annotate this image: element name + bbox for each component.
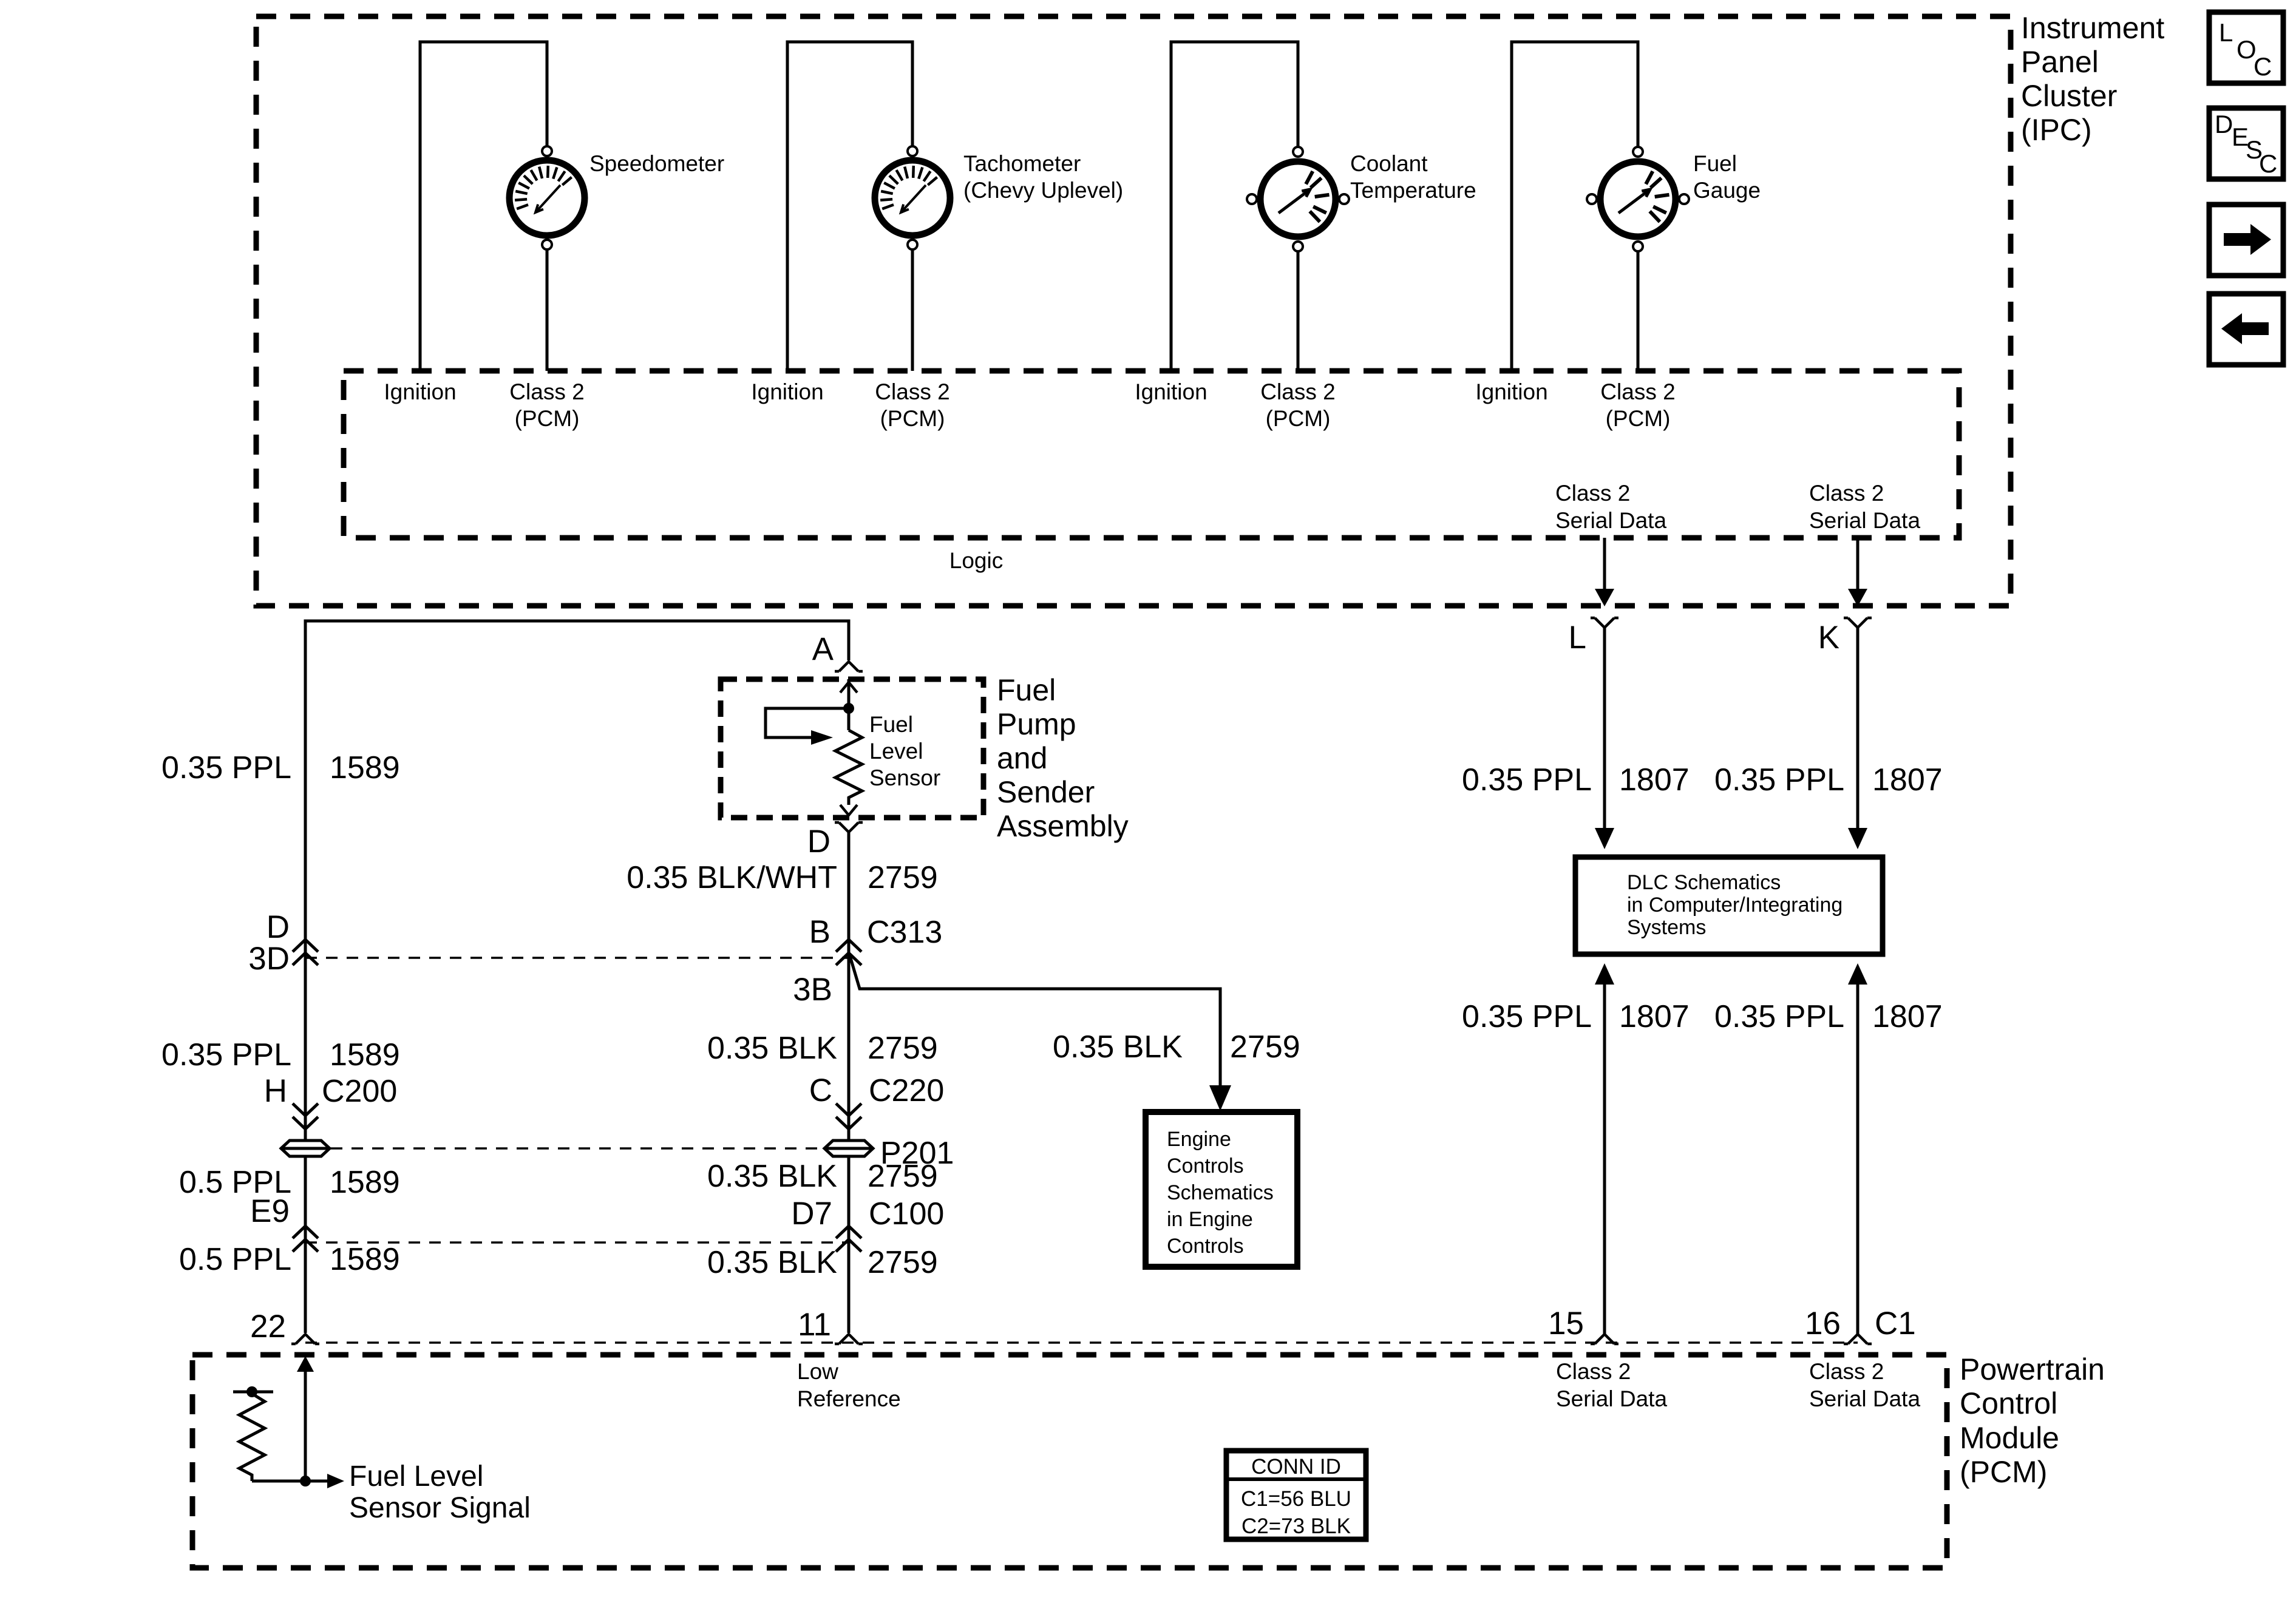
svg-text:1807: 1807 <box>1872 999 1943 1034</box>
label Class 2 Serial Data (pin 15) <box>1556 1359 1667 1411</box>
svg-text:(PCM): (PCM) <box>880 406 945 431</box>
svg-text:Gauge: Gauge <box>1693 178 1761 203</box>
label Class 2 Serial Data (IPC pin K) <box>1809 481 1920 533</box>
wire ignition feed for fuel gauge <box>1512 42 1638 371</box>
svg-text:0.35 PPL: 0.35 PPL <box>1462 762 1592 798</box>
svg-text:A: A <box>812 631 834 667</box>
gauge coolant temperature gauge <box>1247 147 1349 251</box>
svg-text:Class 2: Class 2 <box>875 379 949 404</box>
gauge speedometer <box>509 146 585 249</box>
svg-text:Assembly: Assembly <box>997 809 1129 843</box>
Logic dashed box <box>344 371 1959 538</box>
wire class 2 output below fuel gauge <box>1637 251 1640 371</box>
wire pin L to DLC box <box>1603 628 1606 830</box>
wire label 0.35 PPL 1807 (right lower) <box>1714 999 1943 1034</box>
svg-text:2759: 2759 <box>868 1245 938 1280</box>
svg-text:Fuel: Fuel <box>1693 151 1737 176</box>
svg-text:Module: Module <box>1960 1421 2059 1455</box>
arrow chevron up at fuel pump box entry <box>840 682 857 693</box>
wire class 2 serial data inside IPC (pin K) <box>1856 538 1860 589</box>
connector C100 chevrons right (D7) <box>836 1226 861 1252</box>
svg-text:Level: Level <box>869 739 923 764</box>
label Fuel Pump and Sender Assembly <box>997 673 1129 843</box>
wire into fuel level sensor <box>847 679 851 730</box>
DLC Schematics box <box>1575 857 1883 954</box>
svg-text:0.35 PPL: 0.35 PPL <box>1714 762 1844 798</box>
resistor fuel level sensor <box>835 730 862 805</box>
svg-text:in Engine: in Engine <box>1167 1208 1253 1231</box>
svg-text:Coolant: Coolant <box>1350 151 1428 176</box>
Fuel Pump and Sender Assembly dashed box <box>721 679 983 818</box>
svg-text:L: L <box>1569 620 1586 656</box>
svg-text:Class 2: Class 2 <box>509 379 584 404</box>
wire pin K to DLC box <box>1856 628 1860 830</box>
svg-text:Class 2: Class 2 <box>1600 379 1675 404</box>
svg-text:0.35 PPL: 0.35 PPL <box>161 1037 291 1073</box>
svg-text:B: B <box>809 914 830 950</box>
svg-text:Powertrain: Powertrain <box>1960 1352 2105 1386</box>
label Class 2 (PCM) (tachometer) <box>875 379 949 431</box>
wire label 0.5 PPL 1589 (lower) <box>179 1242 400 1277</box>
svg-text:Reference: Reference <box>797 1386 901 1411</box>
svg-text:3D: 3D <box>248 941 290 977</box>
Powertrain Control Module dashed box <box>192 1355 1947 1568</box>
svg-text:Serial Data: Serial Data <box>1555 508 1666 533</box>
svg-text:C: C <box>809 1073 832 1108</box>
wire class 2 output below tachometer <box>911 249 914 371</box>
svg-text:(Chevy Uplevel): (Chevy Uplevel) <box>963 178 1123 203</box>
svg-text:Speedometer: Speedometer <box>589 151 724 176</box>
svg-text:C313: C313 <box>867 915 942 950</box>
svg-text:D: D <box>2215 110 2233 138</box>
gauge fuel gauge <box>1587 147 1689 251</box>
Instrument Panel Cluster (IPC) dashed box <box>256 16 2011 606</box>
svg-text:Logic: Logic <box>949 548 1003 573</box>
label Class 2 Serial Data (IPC pin L) <box>1555 481 1666 533</box>
svg-text:16: 16 <box>1805 1306 1841 1341</box>
CONN ID table <box>1226 1451 1366 1539</box>
svg-text:0.35 PPL: 0.35 PPL <box>161 750 291 785</box>
label Fuel Level Sensor <box>869 712 940 790</box>
svg-text:(PCM): (PCM) <box>515 406 580 431</box>
pin K connector fork <box>1844 618 1872 628</box>
svg-text:(PCM): (PCM) <box>1266 406 1331 431</box>
svg-text:1807: 1807 <box>1872 762 1943 798</box>
wire class 2 output below speedometer <box>546 249 549 371</box>
svg-text:D: D <box>807 824 830 859</box>
arrowhead into Engine Controls box <box>1209 1085 1231 1111</box>
svg-text:Control: Control <box>1960 1386 2057 1420</box>
svg-text:Temperature: Temperature <box>1350 178 1476 203</box>
svg-text:C220: C220 <box>869 1073 944 1108</box>
svg-text:DLC Schematics: DLC Schematics <box>1627 871 1781 894</box>
svg-text:Ignition: Ignition <box>751 379 823 404</box>
svg-text:Sender: Sender <box>997 775 1095 809</box>
svg-text:D: D <box>267 909 290 945</box>
wire label 0.35 BLK 2759 (lower) <box>707 1245 938 1280</box>
svg-text:E9: E9 <box>250 1193 290 1229</box>
arrowhead up into DLC box (pin 15 wire) <box>1595 963 1614 985</box>
svg-text:(PCM): (PCM) <box>1606 406 1671 431</box>
arrowhead up inside PCM <box>297 1356 314 1372</box>
svg-text:Systems: Systems <box>1627 916 1706 939</box>
connector C220 chevrons <box>836 1103 861 1129</box>
svg-text:Pump: Pump <box>997 707 1076 741</box>
svg-text:(IPC): (IPC) <box>2021 113 2092 147</box>
wire ignition feed for coolant temperature gauge <box>1171 42 1298 371</box>
label Fuel Level Sensor Signal <box>349 1460 531 1524</box>
svg-text:Ignition: Ignition <box>384 379 456 404</box>
svg-text:0.35 BLK: 0.35 BLK <box>1053 1029 1183 1065</box>
svg-text:0.35 BLK: 0.35 BLK <box>707 1031 837 1066</box>
label tachometer <box>963 151 1123 203</box>
wire fuel sensor low reference down to PCM pin 11 <box>847 832 851 1333</box>
svg-text:2759: 2759 <box>1230 1029 1300 1065</box>
dashed connector line C100 level <box>305 1241 849 1244</box>
svg-text:C2=73 BLK: C2=73 BLK <box>1241 1514 1351 1538</box>
arrowhead up into DLC box (pin 16 wire) <box>1848 963 1867 985</box>
wire label 0.35 BLK 2759 (branch) <box>1053 1029 1300 1065</box>
dashed PCM connector line <box>305 1341 1858 1344</box>
svg-text:C1=56 BLU: C1=56 BLU <box>1241 1487 1351 1511</box>
splice pass-through right P201 <box>824 1141 873 1156</box>
wire class 2 output below coolant temperature gauge <box>1297 251 1300 371</box>
wire label 0.35 PPL 1589 (top) <box>161 750 400 785</box>
label coolant temperature gauge <box>1350 151 1476 203</box>
svg-text:11: 11 <box>798 1307 831 1343</box>
branch wire 3B to Engine Controls <box>850 956 1220 1086</box>
connector C100 chevrons left (E9) <box>293 1226 318 1252</box>
svg-text:0.35 PPL: 0.35 PPL <box>1462 999 1592 1034</box>
wire fuel level sensor signal in PCM <box>252 1474 344 1488</box>
svg-text:C100: C100 <box>869 1196 944 1232</box>
svg-text:0.35 BLK: 0.35 BLK <box>707 1159 837 1194</box>
svg-text:Controls: Controls <box>1167 1235 1244 1258</box>
wire DLC box to PCM pin 15 <box>1603 985 1606 1335</box>
dashed splice link P201 <box>331 1147 823 1150</box>
pin 11 fork <box>835 1334 863 1344</box>
wire label 0.35 BLK 2759 (middle) <box>707 1159 938 1194</box>
resistor in PCM <box>239 1392 265 1481</box>
IPC label <box>2021 11 2164 147</box>
svg-text:Serial Data: Serial Data <box>1809 508 1920 533</box>
svg-text:Low: Low <box>797 1359 838 1384</box>
arrowhead into DLC box (from K) <box>1848 828 1867 849</box>
svg-text:Instrument: Instrument <box>2021 11 2164 45</box>
label fuel gauge <box>1693 151 1761 203</box>
svg-text:Class 2: Class 2 <box>1260 379 1335 404</box>
LOC icon box <box>2209 12 2283 83</box>
svg-text:1589: 1589 <box>330 1242 400 1277</box>
wire DLC box to PCM pin 16 <box>1856 985 1860 1335</box>
svg-text:C200: C200 <box>322 1074 397 1109</box>
svg-text:Engine: Engine <box>1167 1128 1231 1151</box>
svg-text:Class 2: Class 2 <box>1809 481 1884 506</box>
junction node in fuel pump <box>843 703 854 714</box>
svg-text:H: H <box>264 1073 287 1109</box>
splice pass-through left (P201) <box>281 1141 330 1156</box>
svg-text:C: C <box>2254 52 2272 81</box>
dashed connector line C313 level <box>305 957 849 959</box>
svg-text:Tachometer: Tachometer <box>963 151 1081 176</box>
svg-text:Schematics: Schematics <box>1167 1181 1274 1204</box>
pin 16 fork <box>1844 1334 1872 1344</box>
svg-text:Class 2: Class 2 <box>1809 1359 1884 1384</box>
wire label 0.35 PPL 1807 (right upper) <box>1714 762 1943 798</box>
wire label 0.35 PPL 1807 (left lower) <box>1462 999 1690 1034</box>
svg-text:Panel: Panel <box>2021 45 2099 79</box>
svg-text:15: 15 <box>1548 1306 1584 1341</box>
Engine Controls Schematics box <box>1146 1112 1297 1267</box>
label Class 2 (PCM) (fuel gauge) <box>1600 379 1675 431</box>
arrowhead into IPC border (pin L) <box>1595 589 1614 606</box>
svg-text:0.35 BLK/WHT: 0.35 BLK/WHT <box>627 860 837 895</box>
wire label 0.35 BLK 2759 (upper) <box>707 1031 938 1066</box>
label Class 2 (PCM) (speedometer) <box>509 379 584 431</box>
left arrow icon box <box>2209 294 2283 365</box>
right arrow icon box <box>2209 205 2283 276</box>
PCM label <box>1960 1352 2105 1489</box>
wire ignition feed for tachometer <box>787 42 912 371</box>
svg-text:D7: D7 <box>791 1196 832 1232</box>
svg-text:1589: 1589 <box>330 750 400 785</box>
pin 15 fork <box>1591 1334 1618 1344</box>
resistor stub in PCM <box>233 1386 273 1397</box>
label Class 2 Serial Data (pin 16) <box>1809 1359 1920 1411</box>
pin L connector fork <box>1591 618 1618 628</box>
svg-text:(PCM): (PCM) <box>1960 1455 2047 1489</box>
svg-text:3B: 3B <box>793 972 832 1008</box>
svg-text:Fuel: Fuel <box>869 712 913 737</box>
wire label 0.35 PPL 1807 (left upper) <box>1462 762 1690 798</box>
svg-text:Cluster: Cluster <box>2021 79 2117 113</box>
svg-text:Controls: Controls <box>1167 1154 1244 1178</box>
wire label 0.35 BLK/WHT 2759 <box>627 860 937 895</box>
wire IPC fuel gauge signal: PCM pin22 up, across, to pin A <box>305 621 849 1333</box>
svg-text:2759: 2759 <box>868 1159 938 1194</box>
arrowhead into DLC box (from L) <box>1595 828 1614 849</box>
pin D fork <box>835 822 863 832</box>
gauge tachometer <box>875 146 950 249</box>
arrow chevron down at fuel pump box exit <box>840 805 857 815</box>
svg-text:2759: 2759 <box>868 1031 938 1066</box>
svg-text:1589: 1589 <box>330 1037 400 1073</box>
wire label 0.5 PPL 1589 (upper) <box>179 1165 400 1200</box>
svg-text:Fuel: Fuel <box>997 673 1056 707</box>
svg-text:0.35 BLK: 0.35 BLK <box>707 1245 837 1280</box>
connector C200 chevrons <box>293 1103 318 1129</box>
label speedometer <box>589 151 724 176</box>
wiper arm loop of fuel level sensor <box>766 708 849 745</box>
svg-text:K: K <box>1818 620 1839 656</box>
wire class 2 serial data inside IPC (pin L) <box>1603 538 1606 589</box>
svg-text:Ignition: Ignition <box>1475 379 1547 404</box>
svg-text:0.35 PPL: 0.35 PPL <box>1714 999 1844 1034</box>
svg-text:and: and <box>997 741 1047 775</box>
pin 22 fork <box>291 1334 319 1344</box>
label Class 2 (PCM) (coolant temperature gauge) <box>1260 379 1335 431</box>
wire label 0.35 PPL 1589 (second) <box>161 1037 400 1073</box>
svg-text:22: 22 <box>250 1309 286 1344</box>
svg-text:L: L <box>2219 18 2233 47</box>
svg-text:Class 2: Class 2 <box>1556 1359 1631 1384</box>
svg-text:Sensor: Sensor <box>869 765 940 790</box>
svg-text:CONN ID: CONN ID <box>1251 1455 1341 1479</box>
DESC icon box <box>2209 108 2283 179</box>
connector D 3D chevrons on left wire <box>293 940 318 965</box>
wire ignition feed for speedometer <box>420 42 547 371</box>
svg-text:Class 2: Class 2 <box>1555 481 1630 506</box>
svg-text:1807: 1807 <box>1619 999 1690 1034</box>
svg-text:Ignition: Ignition <box>1135 379 1207 404</box>
svg-text:C1: C1 <box>1875 1306 1916 1341</box>
svg-text:Serial Data: Serial Data <box>1556 1386 1667 1411</box>
connector C313 chevrons (pin B) <box>836 940 861 965</box>
svg-text:Sensor Signal: Sensor Signal <box>349 1492 531 1524</box>
wire pin 22 inside PCM <box>304 1371 307 1481</box>
pin A fork <box>835 662 863 671</box>
svg-text:1589: 1589 <box>330 1165 400 1200</box>
label Low Reference <box>797 1359 901 1411</box>
svg-text:2759: 2759 <box>868 860 938 895</box>
arrowhead into IPC border (pin K) <box>1848 589 1867 606</box>
svg-text:in Computer/Integrating: in Computer/Integrating <box>1627 893 1843 917</box>
svg-text:1807: 1807 <box>1619 762 1690 798</box>
svg-text:Fuel Level: Fuel Level <box>349 1460 483 1493</box>
svg-text:0.5 PPL: 0.5 PPL <box>179 1242 291 1277</box>
svg-text:Serial Data: Serial Data <box>1809 1386 1920 1411</box>
svg-text:C: C <box>2259 149 2277 178</box>
